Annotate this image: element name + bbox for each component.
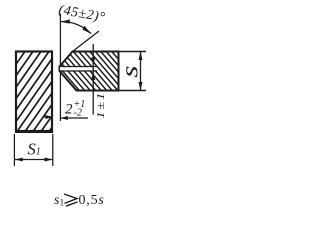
right plate hatching — [28, 50, 152, 92]
svg-text:2: 2 — [65, 102, 73, 118]
svg-text:s: s — [117, 65, 144, 77]
angle arc right arrowhead — [83, 26, 92, 34]
bottom edge extension to s dimension — [119, 90, 147, 92]
s1 right arrowhead — [45, 158, 53, 162]
gap dimension right-pointing arrow — [44, 116, 52, 118]
right plate (beveled member) outline — [60, 52, 119, 91]
vertical reference line for angle — [59, 14, 61, 67]
top edge extension to s dimension — [119, 51, 147, 53]
gap extension line below root — [59, 71, 61, 121]
root face top line — [60, 66, 98, 68]
svg-text:1±1: 1±1 — [95, 91, 107, 119]
gap dimension left-pointing arrow with leader — [61, 117, 88, 119]
left plate hatching — [0, 50, 106, 133]
angle arc left arrowhead — [61, 19, 71, 23]
label 1±1 (rotated) — [95, 91, 107, 119]
s1 left extension line — [13, 134, 15, 166]
caption slanted >= symbol — [64, 194, 78, 206]
s1 left arrowhead — [14, 158, 22, 162]
left plate (vertical member) outline — [16, 52, 52, 132]
angle arc — [61, 21, 92, 33]
label s (rotated) — [117, 65, 144, 77]
root face bottom line — [60, 70, 98, 72]
s dimension top arrowhead — [139, 52, 143, 61]
root face dimension line vertical — [92, 44, 94, 115]
root face down arrowhead — [91, 58, 95, 67]
s dimension bottom arrowhead — [139, 82, 143, 91]
bevel extension line — [73, 31, 100, 52]
s1 dimension line — [14, 159, 52, 161]
root face band (unhatched) — [60, 67, 97, 70]
svg-text:-2: -2 — [74, 108, 82, 119]
svg-text:0,5s: 0,5s — [79, 193, 105, 208]
left plate bottom edge thick — [15, 130, 53, 133]
root face up arrowhead — [91, 72, 95, 81]
s1 right extension line — [52, 134, 54, 166]
s dimension line — [140, 52, 142, 91]
